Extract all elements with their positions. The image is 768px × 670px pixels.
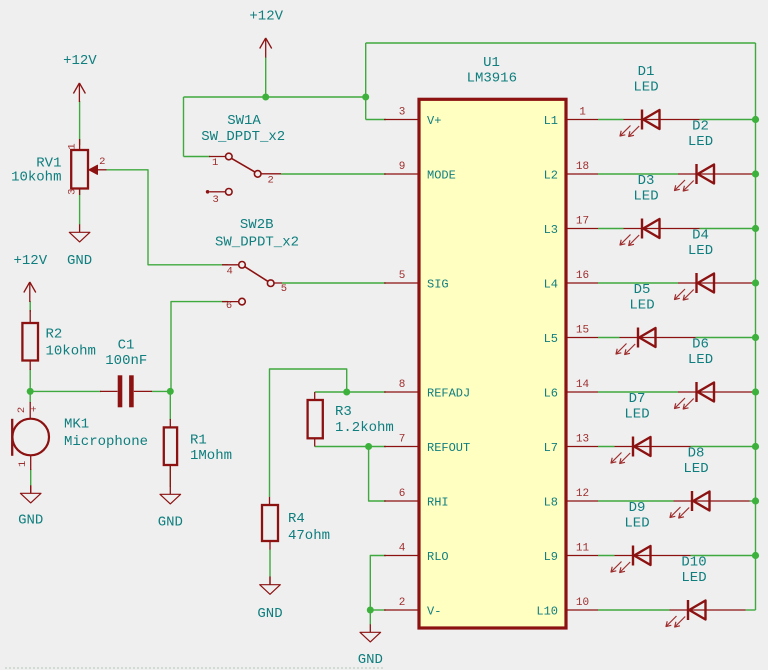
junction bus row 9 [752, 552, 759, 559]
svg-text:GND: GND [18, 513, 43, 529]
wire V- to GND [369, 610, 371, 625]
svg-text:RHI: RHI [427, 496, 449, 510]
svg-text:L7: L7 [544, 441, 558, 455]
junction bus row 8 [752, 497, 759, 504]
svg-text:D10: D10 [681, 555, 706, 571]
resistor R1 [164, 419, 232, 487]
svg-text:LED: LED [624, 515, 649, 531]
svg-text:LM3916: LM3916 [467, 70, 517, 86]
svg-text:D8: D8 [688, 446, 705, 462]
junction bus row 3 [752, 225, 759, 232]
wire LED row 9 [598, 555, 756, 557]
svg-text:REFOUT: REFOUT [427, 441, 470, 455]
svg-text:10kohm: 10kohm [46, 343, 96, 359]
junction (265.7,97) [262, 94, 269, 101]
wire SW2B pin6 to node [171, 302, 228, 392]
svg-text:SIG: SIG [427, 278, 449, 292]
junction (30.2,391.4) [27, 388, 34, 395]
pin 17 L3 [544, 216, 598, 238]
pin 15 L5 [544, 325, 598, 347]
junction bus row 7 [752, 443, 759, 450]
svg-text:18: 18 [576, 161, 589, 173]
wire top horizontal to bus [366, 42, 756, 44]
wire RV1 wiper to SW2B [107, 170, 229, 265]
LED D3 [620, 173, 700, 245]
svg-text:6: 6 [399, 488, 406, 500]
svg-text:REFADJ: REFADJ [427, 387, 470, 401]
junction (170.3,391.4) [167, 388, 174, 395]
pin 1 L1 [544, 107, 598, 129]
svg-text:4: 4 [399, 543, 406, 555]
pin 5 SIG [384, 270, 449, 292]
wire R4 top feed [270, 369, 347, 497]
pin 4 RLO [384, 543, 449, 565]
svg-text:12: 12 [576, 488, 589, 500]
svg-text:14: 14 [576, 379, 590, 391]
svg-text:11: 11 [576, 543, 590, 555]
svg-text:LED: LED [683, 461, 708, 477]
wire LED row 1 [598, 119, 756, 121]
wire SW2B to SIG [282, 282, 386, 284]
svg-text:C1: C1 [118, 338, 135, 354]
svg-text:Microphone: Microphone [64, 434, 148, 450]
wire LED row 4 [598, 282, 678, 284]
LED D2 [675, 119, 755, 191]
ground (R4) [257, 577, 282, 622]
LED D6 [675, 337, 755, 409]
LED D9 [611, 500, 691, 572]
svg-text:5: 5 [281, 283, 287, 295]
junction bus row 2 [752, 170, 759, 177]
svg-text:LED: LED [688, 352, 713, 368]
svg-text:D5: D5 [634, 282, 651, 298]
svg-text:1: 1 [67, 143, 79, 149]
pin 12 L8 [544, 488, 598, 510]
svg-text:2: 2 [268, 174, 274, 186]
svg-text:1.2kohm: 1.2kohm [335, 420, 394, 436]
LED D8 [670, 446, 750, 518]
wire SW1A to MODE [281, 173, 386, 175]
LED D4 [675, 228, 755, 300]
svg-text:D3: D3 [638, 173, 655, 189]
svg-text:2: 2 [16, 407, 28, 413]
junction bus row 1 [752, 116, 759, 123]
svg-text:L2: L2 [544, 169, 558, 183]
svg-text:SW1A: SW1A [227, 113, 261, 129]
wire RV1 to GND [79, 189, 81, 225]
wire LED row 5 [598, 337, 756, 339]
svg-text:GND: GND [158, 515, 183, 531]
pin 3 V+ [384, 107, 441, 129]
junction (365.7,97) [362, 94, 369, 101]
svg-text:LED: LED [629, 297, 654, 313]
LED D1 [620, 64, 700, 136]
pin 14 L6 [544, 379, 598, 401]
svg-text:L8: L8 [544, 496, 558, 510]
wire horizontal supply y=97 [184, 96, 366, 98]
sheet edge [5, 667, 384, 669]
svg-text:13: 13 [576, 434, 589, 446]
power +12V (RV1) [63, 53, 97, 102]
wire REFOUT row [315, 446, 386, 448]
pin 7 REFOUT [384, 434, 470, 456]
svg-text:+: + [30, 405, 36, 417]
ground (RV1) [67, 224, 92, 269]
junction (346.7,392) [343, 389, 350, 396]
resistor R2 [22, 310, 96, 370]
svg-text:L3: L3 [544, 223, 558, 237]
svg-text:SW_DPDT_x2: SW_DPDT_x2 [201, 129, 285, 145]
wire R4 to GND [269, 549, 271, 577]
wire +12V to RV1 [79, 101, 81, 145]
LED D5 [616, 282, 696, 354]
svg-text:9: 9 [399, 161, 406, 173]
svg-text:3: 3 [399, 107, 406, 119]
pin 18 L2 [544, 161, 598, 183]
svg-text:47ohm: 47ohm [288, 528, 330, 544]
wire LED row 6 [598, 391, 678, 393]
svg-text:R4: R4 [288, 511, 305, 527]
wire R1 to GND [169, 465, 171, 487]
wire MK1 to GND [30, 469, 32, 486]
pin 13 L7 [544, 434, 598, 456]
svg-text:R1: R1 [190, 433, 207, 449]
svg-text:L10: L10 [536, 605, 558, 619]
svg-text:LED: LED [681, 570, 706, 586]
pin 16 L4 [544, 270, 598, 292]
svg-text:3: 3 [67, 189, 79, 195]
svg-text:D7: D7 [629, 391, 646, 407]
LED D10 [666, 555, 746, 627]
svg-text:7: 7 [399, 434, 406, 446]
svg-text:V+: V+ [427, 114, 441, 128]
wire node to R1 [169, 391, 171, 420]
svg-text:L1: L1 [544, 114, 558, 128]
svg-text:R2: R2 [46, 327, 63, 343]
svg-text:6: 6 [226, 300, 232, 312]
wire node to C1 [30, 390, 101, 392]
junction (370.3,610) [367, 607, 374, 614]
pin 2 V- [384, 597, 441, 619]
svg-text:8: 8 [399, 379, 406, 391]
svg-text:RLO: RLO [427, 550, 449, 564]
ground (R1) [158, 486, 183, 530]
wire LED row 7 [598, 446, 756, 448]
ground (MK1) [18, 485, 43, 528]
svg-text:D1: D1 [638, 64, 655, 80]
pin 9 MODE [384, 161, 456, 183]
microphone MK1 [12, 402, 148, 493]
svg-text:2: 2 [99, 156, 105, 168]
capacitor C1 [100, 338, 152, 408]
svg-text:LED: LED [624, 406, 649, 422]
junction (368.6,446.5) [365, 443, 372, 450]
svg-text:100nF: 100nF [105, 353, 147, 369]
svg-text:10: 10 [576, 597, 589, 609]
power +12V (top) [249, 9, 283, 58]
wire SW1A feed vertical [184, 97, 211, 157]
resistor R4 [262, 497, 330, 585]
junction bus row 4 [752, 279, 759, 286]
wire RLO jog to V- [370, 556, 386, 611]
power +12V (R2) [13, 253, 47, 302]
wire node to MK1 [29, 391, 31, 403]
wire LED row 2 [598, 173, 678, 175]
wire right bus [755, 43, 757, 610]
junction bus row 6 [752, 388, 759, 395]
svg-text:MK1: MK1 [64, 417, 89, 433]
wire C1 to node R1 [152, 390, 171, 392]
switch SW1A [201, 113, 285, 206]
svg-text:15: 15 [576, 325, 589, 337]
wire V+ pin [366, 119, 386, 121]
pin 10 L10 [536, 597, 598, 619]
svg-text:1: 1 [212, 157, 218, 169]
wire LED row 3 [598, 228, 756, 230]
pin 8 REFADJ [384, 379, 470, 401]
svg-text:1: 1 [579, 107, 586, 119]
wire LED row 8 [598, 500, 756, 502]
svg-text:1: 1 [17, 461, 29, 467]
svg-text:L5: L5 [544, 332, 558, 346]
wire REFOUT to RHI [369, 447, 386, 502]
LED D7 [611, 391, 691, 463]
wire R2 to node [29, 369, 31, 391]
svg-text:D2: D2 [692, 119, 709, 135]
svg-text:GND: GND [67, 253, 92, 269]
svg-text:L4: L4 [544, 278, 558, 292]
wire REFADJ row [315, 391, 386, 393]
wire V+ vertical [365, 43, 367, 120]
svg-text:+12V: +12V [63, 53, 97, 69]
pin 6 RHI [384, 488, 449, 510]
svg-text:LED: LED [688, 243, 713, 259]
svg-text:LED: LED [688, 134, 713, 150]
svg-text:V-: V- [427, 605, 441, 619]
svg-text:SW_DPDT_x2: SW_DPDT_x2 [215, 234, 299, 250]
svg-text:GND: GND [257, 606, 282, 622]
svg-text:4: 4 [227, 266, 233, 278]
wire V- pin [370, 609, 386, 611]
svg-text:D9: D9 [629, 500, 646, 516]
svg-text:LED: LED [633, 79, 658, 95]
pin 11 L9 [544, 543, 598, 565]
wire LED row 10 [598, 609, 756, 611]
junction bus row 5 [752, 334, 759, 341]
svg-text:LED: LED [633, 188, 658, 204]
svg-text:L9: L9 [544, 550, 558, 564]
svg-text:10kohm: 10kohm [11, 169, 61, 185]
wire +12V top to junction [265, 57, 267, 97]
svg-text:U1: U1 [483, 55, 500, 71]
svg-text:GND: GND [358, 652, 383, 668]
svg-text:1Mohm: 1Mohm [190, 448, 232, 464]
svg-text:2: 2 [399, 597, 406, 609]
wire +12V to R2 [29, 301, 31, 312]
svg-text:+12V: +12V [249, 9, 283, 25]
ground (V-) [358, 624, 383, 668]
svg-text:+12V: +12V [13, 253, 47, 269]
svg-text:L6: L6 [544, 387, 558, 401]
svg-text:5: 5 [399, 270, 406, 282]
potentiometer RV1 [11, 139, 106, 195]
IC U1 LM3916 body [419, 55, 566, 628]
svg-text:17: 17 [576, 216, 589, 228]
svg-text:D4: D4 [692, 228, 709, 244]
svg-text:SW2B: SW2B [240, 217, 274, 233]
svg-text:3: 3 [212, 194, 218, 206]
svg-text:MODE: MODE [427, 169, 456, 183]
svg-text:D6: D6 [692, 337, 709, 353]
switch SW2B [215, 217, 299, 312]
resistor R3 [308, 392, 394, 447]
svg-text:R3: R3 [335, 404, 352, 420]
svg-text:16: 16 [576, 270, 589, 282]
